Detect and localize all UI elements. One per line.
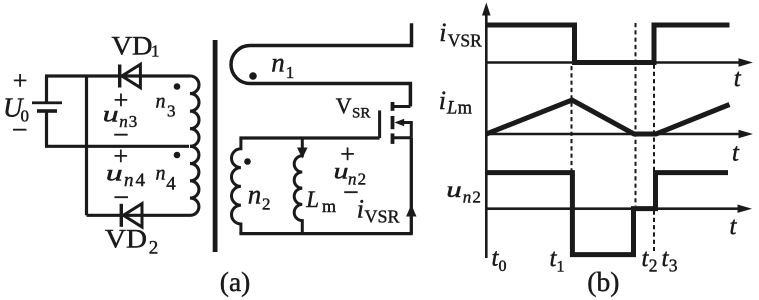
svg-text:VD: VD xyxy=(105,225,147,254)
svg-text:(a): (a) xyxy=(220,266,251,297)
svg-text:t: t xyxy=(734,65,742,92)
svg-text:m: m xyxy=(322,196,336,216)
svg-text:−: − xyxy=(113,183,129,214)
svg-text:n: n xyxy=(271,47,285,77)
svg-text:3: 3 xyxy=(129,112,138,131)
svg-text:n: n xyxy=(156,91,166,113)
svg-text:3: 3 xyxy=(167,102,176,121)
svg-text:n: n xyxy=(156,162,166,184)
svg-text:2: 2 xyxy=(149,238,159,259)
svg-text:SR: SR xyxy=(352,105,370,121)
svg-text:+: + xyxy=(13,66,28,95)
svg-text:VSR: VSR xyxy=(365,207,400,227)
svg-text:m: m xyxy=(458,99,473,119)
svg-text:VSR: VSR xyxy=(448,31,482,51)
svg-text:i: i xyxy=(439,18,446,47)
svg-text:VD: VD xyxy=(112,32,153,61)
svg-text:4: 4 xyxy=(166,173,176,194)
svg-text:L: L xyxy=(305,187,319,212)
svg-text:−: − xyxy=(12,115,28,146)
svg-text:0: 0 xyxy=(499,258,507,275)
svg-text:4: 4 xyxy=(136,170,146,191)
svg-text:2: 2 xyxy=(649,256,658,276)
svg-text:t: t xyxy=(730,213,738,240)
svg-text:V: V xyxy=(336,93,352,118)
svg-text:2: 2 xyxy=(262,195,271,214)
svg-text:i: i xyxy=(439,86,446,115)
svg-text:i: i xyxy=(357,195,364,224)
svg-text:u: u xyxy=(446,177,462,202)
svg-text:(b): (b) xyxy=(587,266,619,297)
svg-text:L: L xyxy=(446,99,457,119)
svg-text:1: 1 xyxy=(557,259,565,276)
svg-text:3: 3 xyxy=(669,256,678,276)
svg-text:n: n xyxy=(248,180,261,210)
svg-text:2: 2 xyxy=(358,170,367,189)
svg-text:t: t xyxy=(732,140,740,167)
svg-text:1: 1 xyxy=(151,42,160,61)
svg-text:1: 1 xyxy=(286,63,295,82)
svg-text:u: u xyxy=(106,160,123,185)
svg-text:n: n xyxy=(463,187,472,206)
svg-text:2: 2 xyxy=(472,187,481,206)
